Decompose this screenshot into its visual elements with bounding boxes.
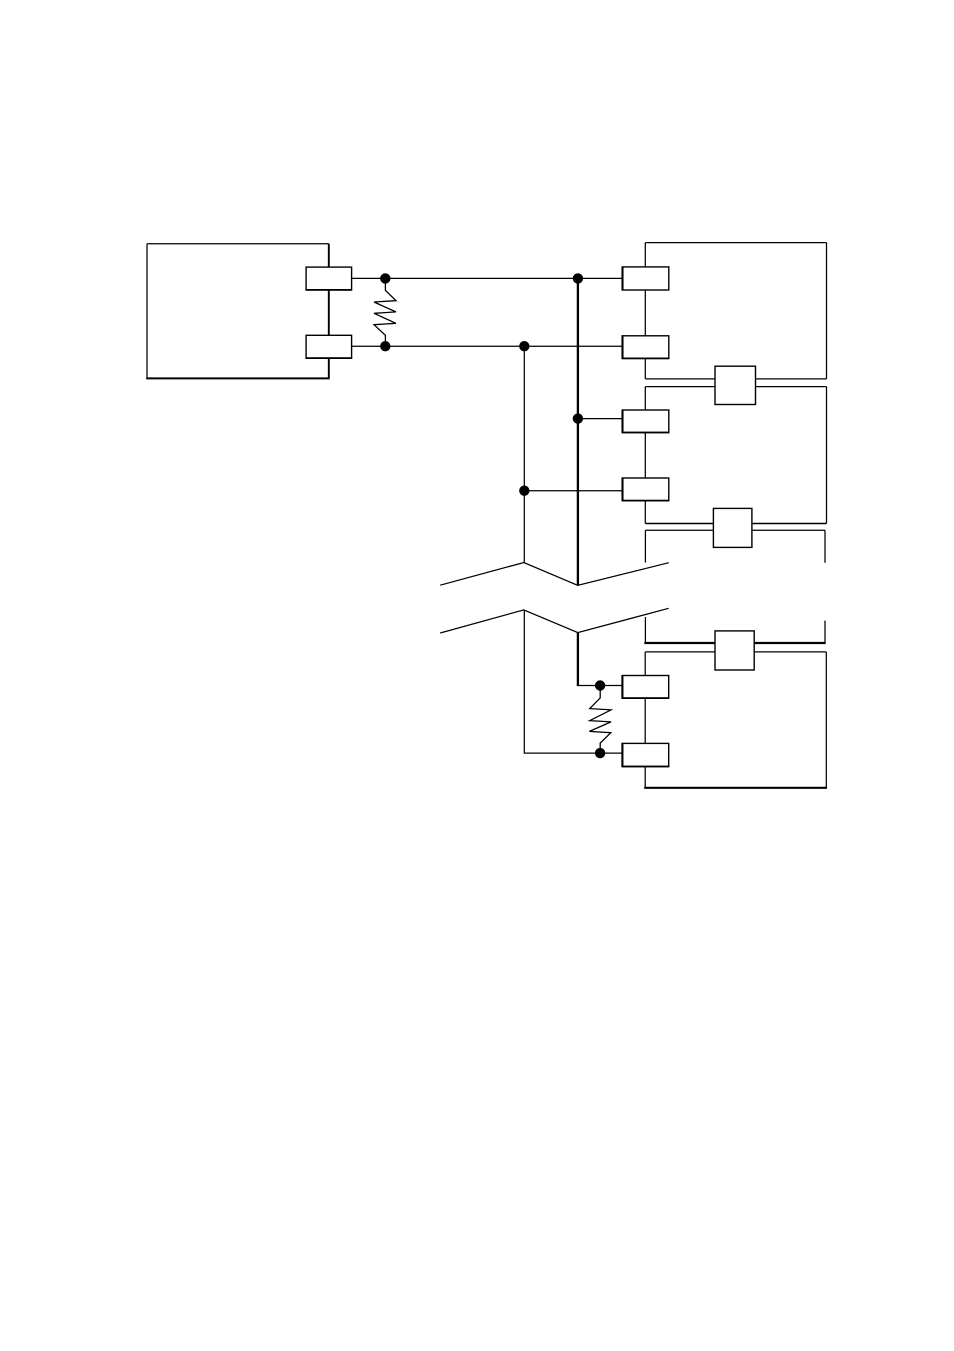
- unit n box (right bottom): [644, 652, 827, 788]
- junction node: upper wire / thick bus: [573, 273, 583, 283]
- junction node: thin line / unit 2 lower branch: [519, 486, 529, 496]
- junction node: unit n upper terminal / resistor: [595, 680, 605, 690]
- link connector square between unit 2 and unit 3: [713, 508, 752, 547]
- link connector square between unit 3 and unit n: [715, 631, 754, 670]
- unit 1 box (right top): [645, 243, 826, 379]
- unit 2 box: [645, 387, 826, 524]
- terminal block unit 1 lower: [622, 335, 670, 359]
- wire: thick bus vertical segment (upper): [577, 278, 579, 585]
- link connector square between unit 1 and unit 2: [715, 366, 756, 404]
- junction node: host upper wire / resistor: [380, 273, 390, 283]
- host unit box (left): [146, 244, 329, 379]
- wire: lower pair line from host SDB terminal to unit 1 terminal: [352, 345, 623, 347]
- terminal block unit 1 upper: [623, 266, 669, 290]
- junction node: host lower wire / resistor: [380, 341, 390, 351]
- terminal block host lower: [306, 335, 353, 358]
- break mark (lower torn-line): [440, 608, 669, 633]
- junction node: lower wire / thin line: [519, 341, 529, 351]
- wire: branch to unit 2 upper terminal: [578, 418, 623, 420]
- termination resistor at host: [374, 283, 396, 341]
- unit 3 box (interrupted by break marks): [644, 530, 825, 643]
- terminal block unit 2 lower: [622, 478, 670, 502]
- terminal block unit n lower: [622, 743, 670, 767]
- terminal block host upper: [306, 267, 353, 290]
- wire: thick bus vertical segment (lower): [577, 633, 579, 686]
- terminal block unit 2 upper: [622, 410, 670, 434]
- wire: branch to unit 2 lower terminal (crosses bus without junction): [524, 490, 622, 492]
- wire: thin line vertical segment (upper): [523, 346, 525, 562]
- wire: upper pair line from host SDA terminal to unit 1 terminal: [352, 277, 623, 279]
- junction node: unit n lower terminal / resistor: [595, 748, 605, 758]
- wire: corner to unit n upper terminal: [577, 685, 623, 687]
- junction node: thick bus / unit 2 upper branch: [573, 413, 583, 423]
- terminal block unit n upper: [622, 675, 670, 699]
- break mark (upper torn-line): [440, 563, 669, 586]
- wire: thin line vertical segment (lower) with corner to unit n lower terminal: [524, 610, 622, 753]
- termination resistor at unit n: [589, 691, 611, 749]
